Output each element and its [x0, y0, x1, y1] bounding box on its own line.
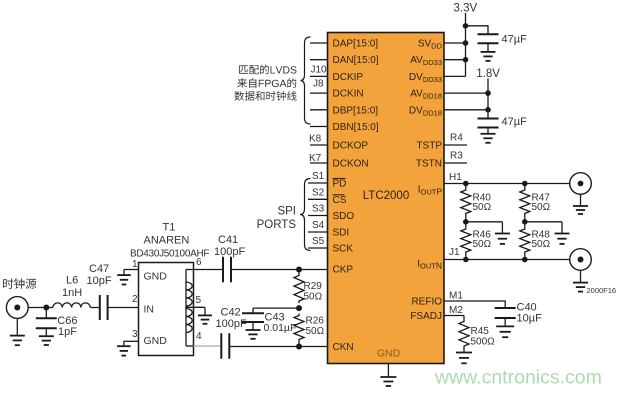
- pin label 6: [196, 257, 202, 268]
- IC pin label IOUTP: [418, 185, 443, 197]
- node IOUTN-R46: [463, 257, 469, 263]
- svg-text:CKN: CKN: [333, 342, 354, 353]
- value label R47: [532, 192, 551, 203]
- capacitor 47uF (1.8V): [478, 119, 499, 128]
- svg-text:SDO: SDO: [333, 211, 355, 222]
- svg-text:GND: GND: [144, 335, 168, 347]
- capacitor C40: [495, 308, 516, 318]
- svg-text:K7: K7: [309, 153, 322, 164]
- node label S4: [312, 220, 325, 231]
- wire LVDS pin row 5: [310, 109, 328, 111]
- svg-text:50Ω: 50Ω: [473, 239, 492, 250]
- value label R47 ohms: [532, 202, 551, 213]
- node label R4: [450, 133, 463, 144]
- node label S2: [312, 187, 325, 198]
- resistor R45: [459, 320, 469, 349]
- svg-text:0.01µF: 0.01µF: [264, 322, 297, 334]
- svg-text:50Ω: 50Ω: [532, 202, 551, 213]
- capacitor C47: [100, 295, 108, 320]
- svg-text:GND: GND: [377, 348, 401, 360]
- IC pin label SVDD: [418, 39, 443, 51]
- IC pin label FSADJ: [410, 311, 442, 322]
- ground (R45): [456, 353, 472, 364]
- svg-text:C41: C41: [218, 234, 238, 246]
- IC U1 LTC2000 body: [328, 33, 445, 364]
- capacitor C66: [36, 318, 57, 328]
- annotation matched LVDS line2: [237, 78, 296, 88]
- IC pin label DBP[15:0]: [333, 105, 379, 116]
- annotation SPI: [277, 206, 296, 218]
- svg-text:1nH: 1nH: [62, 287, 82, 299]
- IC pin label CKN: [333, 342, 354, 353]
- value label 47uF (1.8V): [502, 116, 528, 128]
- svg-text:DCKOP: DCKOP: [333, 141, 369, 152]
- brace SPI group: [300, 179, 311, 251]
- watermark www.cntronics.com: [434, 367, 602, 389]
- wire LVDS pin row 1: [310, 42, 328, 44]
- annotation matched LVDS line3: [234, 91, 296, 101]
- wire DCKOP pin stub: [310, 144, 328, 146]
- svg-text:DBP[15:0]: DBP[15:0]: [333, 105, 379, 116]
- svg-text:GND: GND: [144, 271, 168, 283]
- node label R3: [450, 151, 463, 162]
- IC pin label DVDD33: [409, 72, 442, 84]
- wire SPI pin row S3: [308, 215, 328, 217]
- value label 47uF (3.3V): [502, 34, 528, 46]
- resistor R29: [294, 274, 304, 304]
- svg-text:T1: T1: [163, 222, 176, 234]
- svg-text:SCK: SCK: [333, 244, 354, 255]
- ground (R47/R48 mid): [555, 234, 570, 244]
- svg-text:3: 3: [132, 329, 138, 340]
- svg-text:DAP[15:0]: DAP[15:0]: [333, 39, 379, 50]
- wire LVDS pin row 2: [310, 59, 328, 61]
- part label ANAREN: [144, 235, 190, 247]
- node clock input: [43, 305, 49, 311]
- wire SVDD to rail: [444, 42, 466, 44]
- wire TSTN stub: [444, 162, 467, 164]
- IC pin label DVDD18: [409, 105, 442, 117]
- svg-text:1.8V: 1.8V: [476, 68, 500, 80]
- value label R45 ohms: [471, 336, 496, 347]
- resistor R48: [520, 222, 530, 260]
- value label R40: [473, 192, 492, 203]
- IC pin label TSTN: [416, 159, 442, 170]
- svg-text:DCKIN: DCKIN: [333, 89, 364, 100]
- svg-text:S3: S3: [312, 204, 325, 215]
- svg-text:100pF: 100pF: [214, 246, 245, 258]
- node label S3: [312, 204, 325, 215]
- svg-text:C42: C42: [221, 306, 241, 318]
- IC pin label DCKIP: [333, 72, 364, 83]
- annotation PORTS: [257, 219, 297, 231]
- pin label 5: [196, 295, 202, 306]
- wire TSTP stub: [444, 144, 467, 146]
- svg-text:1pF: 1pF: [58, 326, 77, 338]
- ground (IC GND): [380, 377, 396, 386]
- svg-text:M1: M1: [449, 290, 463, 301]
- wire C47 to T1 pin2: [108, 307, 139, 309]
- pin text GND (pin3): [144, 335, 168, 347]
- value label C40: [517, 302, 537, 314]
- IC pin label CS: [333, 195, 347, 206]
- svg-text:DAN[15:0]: DAN[15:0]: [333, 55, 379, 66]
- value label R46 ohms: [473, 239, 492, 250]
- brace LVDS group: [301, 37, 311, 124]
- value label R29 ohms: [304, 292, 323, 303]
- wire cap to ground: [487, 43, 489, 52]
- IC U1 name label LTC2000: [363, 190, 409, 202]
- wire midpoint to ground (right pair): [525, 222, 562, 234]
- value label R26 ohms: [306, 326, 325, 337]
- IC pin label AVDD18: [410, 89, 442, 101]
- IC pin label PD: [333, 179, 347, 190]
- svg-text:FSADJ: FSADJ: [410, 311, 442, 322]
- node R29-R26 midpoint: [296, 305, 302, 311]
- svg-text:47µF: 47µF: [502, 34, 528, 46]
- svg-text:J10: J10: [311, 65, 328, 76]
- svg-text:CS: CS: [333, 195, 347, 206]
- svg-text:2: 2: [132, 294, 138, 305]
- capacitor C42: [221, 333, 229, 359]
- wire midpoint to C43: [253, 308, 299, 313]
- svg-text:47µF: 47µF: [502, 116, 528, 128]
- IC pin label DAP[15:0]: [333, 39, 379, 50]
- capacitor C43: [242, 313, 264, 322]
- wire C66 to ground: [45, 329, 47, 336]
- value label C42: [221, 306, 241, 318]
- value label R48: [532, 229, 551, 240]
- node AVDD18: [485, 90, 491, 96]
- wire C42 to CKN node: [229, 346, 299, 348]
- wire T1 secondary vertical: [185, 270, 187, 347]
- pin label 2: [132, 294, 138, 305]
- value label C43: [265, 311, 285, 323]
- wire 3.3V rail: [465, 13, 467, 76]
- wire node to C66: [45, 308, 47, 319]
- capacitor C41: [223, 257, 231, 283]
- wire T1 pin6 to C41: [186, 269, 223, 271]
- wire DVDD33 to rail: [444, 75, 466, 77]
- wire C41 to CKP node: [231, 269, 299, 271]
- svg-text:C47: C47: [89, 263, 109, 275]
- node label J1: [449, 247, 460, 258]
- svg-text:J1: J1: [449, 247, 460, 258]
- part label BD430J50100AHF: [130, 249, 209, 260]
- node IOUTN-R48: [522, 257, 528, 263]
- svg-text:LTC2000: LTC2000: [363, 190, 409, 202]
- wire SPI pin row S4: [308, 231, 328, 233]
- wire 1.8V rail: [487, 79, 489, 119]
- connector IOUTP coax output: [570, 173, 592, 195]
- svg-text:TSTN: TSTN: [416, 159, 442, 170]
- wire T1 pin1 stub: [124, 270, 139, 276]
- value label C43 value: [264, 322, 297, 334]
- wire GND pin to ground: [387, 364, 389, 378]
- svg-text:5: 5: [196, 295, 202, 306]
- wire DVDD18 to rail: [444, 109, 488, 111]
- svg-text:4: 4: [196, 331, 202, 342]
- node label J8: [313, 79, 324, 90]
- value label C47 value: [87, 275, 112, 287]
- IC pin label DCKIN: [333, 89, 364, 100]
- svg-text:R3: R3: [450, 151, 463, 162]
- svg-text:M2: M2: [449, 305, 463, 316]
- value label C47: [89, 263, 109, 275]
- annotation matched LVDS line1: [239, 65, 296, 75]
- svg-text:2000F16: 2000F16: [587, 286, 617, 295]
- node label K8: [309, 134, 322, 145]
- wire R29 top lead: [298, 270, 300, 274]
- value label R29: [304, 281, 323, 292]
- value label C66: [57, 315, 77, 327]
- IC pin label DCKOP: [333, 141, 369, 152]
- wire SPI pin row S1: [308, 182, 328, 184]
- value label R48 ohms: [532, 239, 551, 250]
- svg-text:S5: S5: [312, 236, 325, 247]
- IC pin label DBN[15:0]: [333, 122, 379, 133]
- node CKP: [296, 267, 302, 273]
- wire SPI pin row S5: [308, 247, 328, 249]
- svg-text:DCKON: DCKON: [333, 159, 369, 170]
- ground (C66): [39, 336, 54, 345]
- wire REFIO to C40: [444, 300, 505, 308]
- node 3.3V cap branch: [463, 23, 469, 29]
- pin text GND (pin1): [144, 271, 168, 283]
- node SVDD: [463, 40, 469, 46]
- IC pin label GND (bottom): [377, 348, 401, 360]
- resistor R40: [461, 184, 471, 222]
- connector clock source coax: [6, 297, 28, 319]
- wire C40 to ground: [504, 319, 506, 326]
- resistor R26: [294, 314, 304, 342]
- node label S1: [312, 171, 325, 182]
- wire L6 to C47: [90, 307, 100, 309]
- value label C40 value: [517, 312, 543, 324]
- value label C42 value: [216, 318, 247, 330]
- annotation clock source: [3, 278, 36, 289]
- node IOUTP-R47: [522, 181, 528, 187]
- svg-text:R4: R4: [450, 133, 463, 144]
- IC pin label DCKON: [333, 159, 369, 170]
- wire midpoint to ground (left pair): [466, 222, 503, 234]
- IC pin label CKP: [333, 265, 354, 276]
- connector IOUTN coax output: [570, 249, 592, 271]
- svg-text:100pF: 100pF: [216, 318, 247, 330]
- value label C41: [218, 234, 238, 246]
- svg-text:50Ω: 50Ω: [306, 326, 325, 337]
- svg-text:S1: S1: [312, 171, 325, 182]
- svg-text:6: 6: [196, 257, 202, 268]
- node IOUTP-R40: [463, 181, 469, 187]
- node label M1: [449, 290, 463, 301]
- IC pin label SDI: [333, 228, 350, 239]
- part label T1: [163, 222, 176, 234]
- svg-text:SDI: SDI: [333, 228, 350, 239]
- wire LVDS pin row 4: [310, 92, 328, 94]
- svg-text:R29: R29: [304, 281, 323, 292]
- IC pin label DAN[15:0]: [333, 55, 379, 66]
- resistor R47: [520, 184, 530, 222]
- ground (connector2): [573, 283, 588, 292]
- ground (connector1): [573, 206, 588, 214]
- wire SPI pin row S2: [308, 198, 328, 200]
- svg-text:DCKIP: DCKIP: [333, 72, 364, 83]
- wire LVDS pin row 3: [310, 75, 328, 77]
- wire T1 pin4 (gray): [186, 345, 221, 347]
- svg-text:K8: K8: [309, 134, 322, 145]
- capacitor 47uF (3.3V): [478, 34, 499, 43]
- value label C66 value: [58, 326, 77, 338]
- transformer T1 secondary winding: [186, 282, 192, 333]
- svg-text:500Ω: 500Ω: [471, 336, 496, 347]
- node label K7: [309, 153, 322, 164]
- svg-text:www.cntronics.com: www.cntronics.com: [434, 367, 602, 389]
- svg-text:TSTP: TSTP: [416, 141, 442, 152]
- supply label 1.8V: [476, 68, 500, 80]
- node label H1: [449, 172, 462, 183]
- IC pin label TSTP: [416, 141, 442, 152]
- value label R26: [306, 316, 325, 327]
- svg-text:SPI: SPI: [277, 206, 296, 218]
- ground (clock connector): [10, 336, 25, 346]
- resistor R46: [461, 222, 471, 260]
- ground (T1 pin1): [117, 275, 131, 284]
- svg-text:H1: H1: [449, 172, 462, 183]
- svg-text:PD: PD: [333, 179, 347, 190]
- svg-text:10µF: 10µF: [517, 312, 543, 324]
- svg-text:50Ω: 50Ω: [532, 239, 551, 250]
- wire AVDD33 to rail: [444, 59, 466, 61]
- wire connector2 to ground: [580, 270, 582, 282]
- IC pin label SCK: [333, 244, 354, 255]
- pin label 1: [132, 259, 138, 270]
- node DVDD18: [485, 107, 491, 113]
- svg-text:1: 1: [132, 259, 138, 270]
- node label M2: [449, 305, 463, 316]
- value label R40 ohms: [473, 202, 492, 213]
- wire FSADJ to R45: [444, 316, 464, 320]
- node R40-R46 midpoint: [463, 219, 469, 225]
- svg-text:IN: IN: [144, 304, 155, 316]
- wire 3.3V to C decoupling: [466, 25, 489, 34]
- node label J10: [311, 65, 328, 76]
- svg-text:S4: S4: [312, 220, 325, 231]
- wire CKP to IC: [299, 269, 328, 271]
- wire LVDS pin row 6: [310, 126, 328, 128]
- svg-text:PORTS: PORTS: [257, 219, 297, 231]
- svg-text:10pF: 10pF: [87, 275, 112, 287]
- wire T1 pin5 tap to ground: [186, 307, 205, 315]
- node R47-R48 midpoint: [522, 219, 528, 225]
- svg-text:50Ω: 50Ω: [304, 292, 323, 303]
- ground (1.8V cap): [481, 134, 496, 143]
- inductor L6: [53, 303, 90, 308]
- ground (T1 pin3): [117, 346, 131, 355]
- IC pin label AVDD33: [410, 55, 442, 67]
- svg-text:CKP: CKP: [333, 265, 354, 276]
- wire AVDD18 to rail: [444, 92, 488, 94]
- IC pin label IOUTN: [417, 259, 442, 271]
- wire C43 to ground: [252, 323, 254, 331]
- svg-text:S2: S2: [312, 187, 325, 198]
- IC pin label SDO: [333, 211, 355, 222]
- ground (T1 pin5): [198, 315, 212, 323]
- wire connector1 to ground: [580, 194, 582, 206]
- svg-text:L6: L6: [66, 275, 78, 287]
- part number label 2000F16: [587, 286, 617, 295]
- ground (3.3V cap): [481, 52, 496, 61]
- svg-text:DBN[15:0]: DBN[15:0]: [333, 122, 379, 133]
- wire DCKON pin stub: [310, 162, 328, 164]
- transformer T1 box: [139, 263, 194, 356]
- svg-text:3.3V: 3.3V: [454, 3, 478, 15]
- wire connector to node: [28, 307, 53, 309]
- svg-text:50Ω: 50Ω: [473, 202, 492, 213]
- wire R26 bottom lead: [298, 342, 300, 347]
- pin label 3: [132, 329, 138, 340]
- wire CKN to IC: [299, 346, 328, 348]
- wire IOUTN line: [444, 259, 570, 261]
- svg-text:ANAREN: ANAREN: [144, 235, 190, 247]
- wire R45 to ground: [463, 348, 465, 353]
- value label C41 value: [214, 246, 245, 258]
- wire T1 pin3 stub: [124, 341, 139, 346]
- ground (C43): [246, 330, 261, 339]
- value label L6 value: [62, 287, 82, 299]
- pin label 4: [196, 331, 202, 342]
- value label R45: [471, 326, 490, 337]
- svg-text:REFIO: REFIO: [411, 297, 442, 308]
- node label S5: [312, 236, 325, 247]
- IC pin label REFIO: [411, 297, 442, 308]
- node AVDD33: [463, 57, 469, 63]
- value label R46: [473, 229, 492, 240]
- pin text IN: [144, 304, 155, 316]
- value label L6: [66, 275, 78, 287]
- ground (R40/R46 mid): [495, 234, 510, 244]
- wire cap to ground 1.8V: [487, 128, 489, 134]
- svg-text:J8: J8: [313, 79, 324, 90]
- wire IOUTP line: [444, 183, 570, 185]
- wire clock connector to ground: [16, 318, 18, 335]
- svg-text:R26: R26: [306, 316, 325, 327]
- supply label 3.3V: [454, 3, 478, 15]
- node CKN: [296, 344, 302, 350]
- ground (C40): [496, 326, 514, 337]
